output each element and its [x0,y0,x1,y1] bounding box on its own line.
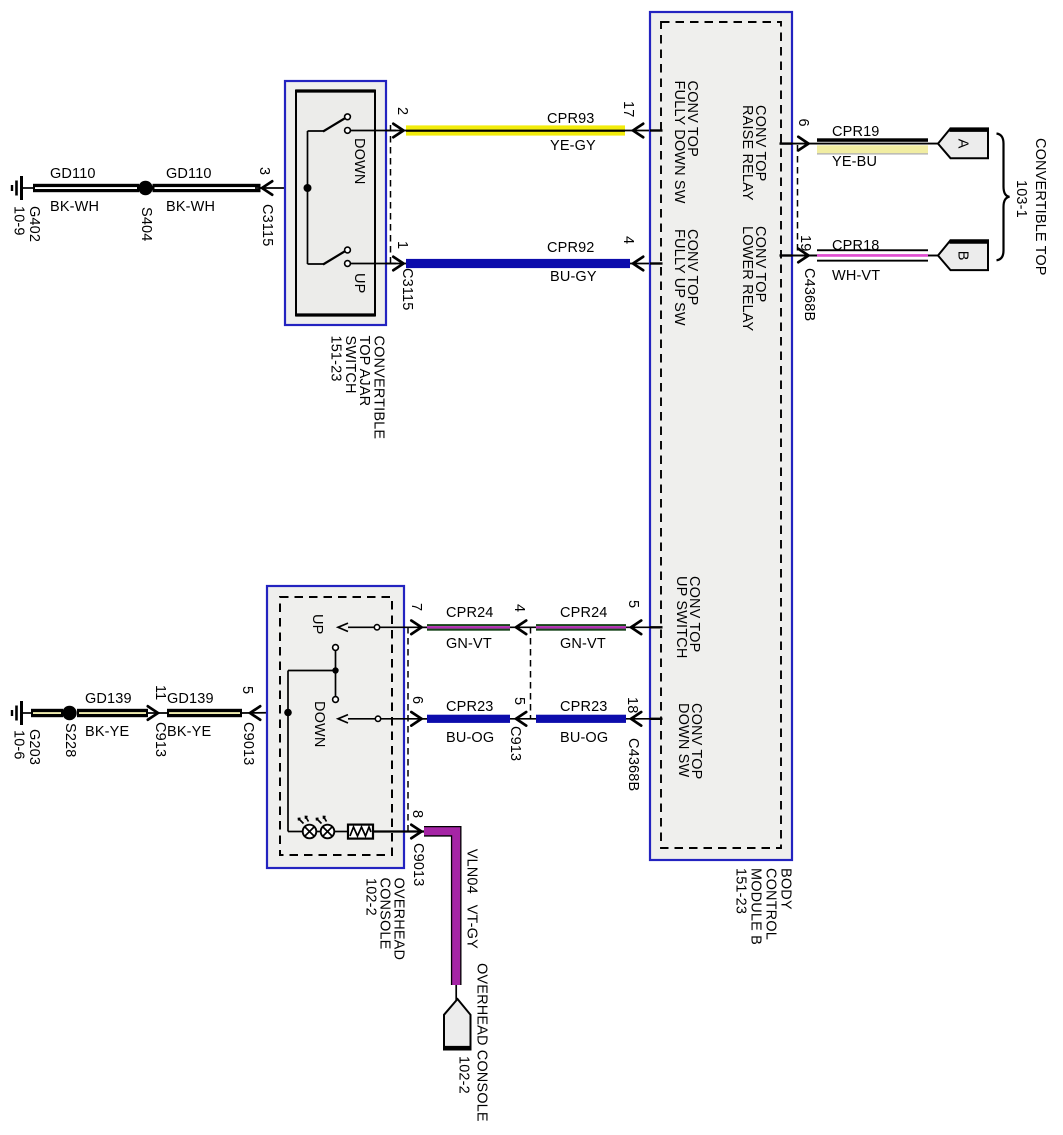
svg-text:G203: G203 [26,729,42,765]
svg-text:151-23: 151-23 [733,868,749,914]
svg-text:CPR23: CPR23 [446,699,494,715]
svg-text:OVERHEAD CONSOLE: OVERHEAD CONSOLE [474,963,490,1122]
svg-text:CPR23: CPR23 [560,699,608,715]
svg-text:CONTROL: CONTROL [763,868,779,940]
connector arrow pin 11 C913 [148,706,158,720]
wire thin at C913 [146,712,170,714]
svg-text:3: 3 [256,167,272,175]
svg-text:103-1: 103-1 [1013,180,1029,218]
pin 19 stub [780,254,793,256]
ground G203 [12,701,33,725]
switch UP contact [308,247,397,266]
svg-text:C913: C913 [507,726,523,761]
connector arrow pin 17 [633,124,643,138]
wire lamp to resistor [334,831,348,833]
svg-text:VLN04: VLN04 [464,849,480,894]
node switch common [332,667,338,673]
connector B convertible top [938,240,988,270]
connector A convertible top [938,128,988,158]
wire CPR24 GN-VT segment 2 [536,624,626,631]
UP output arrow symbol [338,623,348,631]
label conv top fully up sw [671,229,700,326]
label conv top raise relay [739,105,768,201]
node junction console [284,709,292,717]
svg-text:RAISE RELAY: RAISE RELAY [739,105,755,201]
label overhead console 102-2 (connector) [456,963,490,1122]
svg-text:FULLY UP SW: FULLY UP SW [671,229,687,326]
wire GD139 BK-YE segment 2 [167,709,242,717]
svg-text:C4368B: C4368B [625,738,641,791]
svg-text:CPR92: CPR92 [547,240,595,256]
connector arrow pin 6 [798,137,808,151]
connector arrow pin 7 C9013 [411,621,421,635]
svg-text:GN-VT: GN-VT [446,636,492,652]
wire thin to console [242,712,288,715]
svg-text:17: 17 [620,101,636,117]
label conv top down sw [675,703,704,779]
body control module box [650,12,792,860]
connector arrow pin 2 C3115 [393,124,403,138]
svg-text:5: 5 [511,697,527,705]
svg-text:UP: UP [309,614,325,634]
svg-text:2: 2 [394,107,410,115]
dashed connector line C9013 [407,627,409,832]
svg-text:151-23: 151-23 [328,336,344,382]
wire resistor to pin 8 [373,830,427,832]
splice S228 [62,706,76,720]
svg-text:DOWN SW: DOWN SW [675,703,691,778]
svg-text:BK-YE: BK-YE [85,724,129,740]
svg-text:4: 4 [620,236,636,244]
label overhead console 102-2 (box) [363,878,407,961]
svg-text:5: 5 [239,686,255,694]
svg-text:10-6: 10-6 [11,730,27,760]
svg-text:WH-VT: WH-VT [832,268,880,284]
svg-text:7: 7 [408,603,424,611]
svg-text:102-2: 102-2 [363,878,379,916]
svg-text:CPR24: CPR24 [446,605,494,621]
connector arrow pin 4 [633,257,643,271]
lamp 2 [317,817,335,839]
label conv top lower relay [739,226,768,332]
wire CPR24 GN-VT segment 1 [422,624,651,631]
wire CPR23 BU-OG segment 1 [422,715,651,723]
label convertible top ajar switch 151-23 [328,336,387,440]
svg-text:102-2: 102-2 [456,1056,472,1094]
svg-text:GD139: GD139 [85,691,132,707]
svg-text:VT-GY: VT-GY [464,905,480,949]
wire console common horizontal [288,670,336,672]
node junction in ajar switch [304,184,312,192]
svg-text:10-9: 10-9 [11,206,27,236]
svg-text:S228: S228 [62,723,78,757]
svg-text:S404: S404 [138,207,154,241]
connector arrow pin 1 C3115 [393,257,403,271]
contact circle DOWN [375,716,380,721]
connector arrow pin 8 C9013 [411,825,421,839]
connector arrow pin 18 [631,712,641,726]
connector arrow pin 19 [798,249,808,263]
wire VLN04 VT-GY [424,831,456,985]
wire console common vertical [287,671,289,832]
svg-text:BK-WH: BK-WH [50,199,99,215]
label conv top up switch [673,576,702,658]
svg-text:C913: C913 [152,722,168,757]
ground G402 [12,176,33,200]
svg-text:MODULE B: MODULE B [748,868,764,945]
svg-text:C9013: C9013 [410,843,426,886]
svg-text:BU-OG: BU-OG [446,730,494,746]
svg-text:1: 1 [394,241,410,249]
svg-text:B: B [955,251,971,261]
connector arrow pin 5 C9013 [250,706,260,720]
svg-text:CPR24: CPR24 [560,605,608,621]
wire between lamps [316,831,321,833]
svg-text:GD110: GD110 [50,166,96,182]
wire CPR19 YE-BU [792,138,938,154]
svg-text:BK-YE: BK-YE [167,724,211,740]
svg-text:C4368B: C4368B [801,268,817,321]
label G203 10-6 [11,729,43,765]
svg-text:C3115: C3115 [399,268,415,310]
connector arrow pin 4 C913 [516,621,526,635]
pin 18 stub [650,718,663,720]
svg-text:4: 4 [511,604,527,612]
svg-text:CONVERTIBLE TOP: CONVERTIBLE TOP [1032,138,1048,276]
label body control module B 151-23 [733,868,794,945]
pin 6 stub [780,142,793,144]
svg-text:LOWER RELAY: LOWER RELAY [739,226,755,332]
DOWN output arrow symbol [338,715,348,723]
svg-text:A: A [955,139,971,149]
svg-text:GD139: GD139 [167,691,214,707]
wire GD110 BK-WH segment 1 [33,184,139,192]
wire GD139 BK-YE segment 0 [31,709,63,717]
svg-text:YE-BU: YE-BU [832,154,877,170]
svg-text:GN-VT: GN-VT [560,636,606,652]
svg-text:11: 11 [152,685,168,700]
splice S404 [138,181,152,195]
svg-text:DOWN: DOWN [351,138,367,185]
convertible top ajar switch box [285,81,386,325]
dashed connector line C4368B right [797,145,799,255]
pin 4 stub [650,262,663,264]
wire to overhead console connector [455,985,457,1000]
svg-text:5: 5 [625,600,641,608]
contact circle UP [374,625,379,630]
brace convertible top [997,134,1010,261]
overhead console box [267,586,404,868]
dashed connector line C913 [530,627,532,719]
svg-text:CPR19: CPR19 [832,124,880,140]
svg-text:BODY: BODY [778,868,794,910]
wire CPR93 YE-GY [386,125,650,135]
pin 17 stub [650,129,663,131]
wire CPR92 BU-GY [386,259,650,268]
lamp 1 [299,817,317,839]
wire DOWN to pin 6 [348,718,427,720]
svg-text:C3115: C3115 [259,204,275,246]
connector overhead console [444,999,471,1050]
svg-text:DOWN: DOWN [311,701,327,748]
switch lever console [333,645,339,703]
svg-text:GD110: GD110 [166,166,212,182]
svg-text:18: 18 [624,697,640,713]
resistor [348,825,373,839]
wire GD110 BK-WH segment 2 [153,184,261,192]
connector arrow pin 6 C9013 [411,712,421,726]
wire GD139 BK-YE segment 1 [77,709,148,717]
svg-text:6: 6 [409,696,425,704]
label conv top fully down sw [671,81,700,204]
wire CPR23 BU-OG segment 2 [536,715,626,723]
pin 5 stub [650,626,663,628]
connector arrow pin 5 C913 [516,712,526,726]
wire CPR18 WH-VT [792,249,938,261]
wire switch common [307,131,309,264]
svg-text:UP SWITCH: UP SWITCH [673,576,689,658]
dashed connector line C3115 [390,125,392,268]
svg-text:19: 19 [797,235,813,251]
svg-text:6: 6 [795,119,811,127]
connector arrow pin 5 BCM [631,621,641,635]
wire to ajar switch [255,187,308,189]
connector arrow pin 3 C3115 [262,181,272,195]
svg-text:8: 8 [409,810,425,818]
wire UP to pin 7 [348,626,427,628]
svg-text:BU-GY: BU-GY [550,269,597,285]
label convertible top 103-1 [1013,138,1048,276]
svg-text:UP: UP [351,273,367,293]
svg-text:BK-WH: BK-WH [166,199,215,215]
svg-text:CPR93: CPR93 [547,111,595,127]
switch DOWN contact [308,114,397,133]
svg-text:G402: G402 [26,206,42,242]
svg-text:BU-OG: BU-OG [560,730,608,746]
svg-text:CPR18: CPR18 [832,238,880,254]
wire lamp row [288,831,303,833]
svg-text:C9013: C9013 [240,722,256,765]
svg-text:FULLY DOWN SW: FULLY DOWN SW [671,81,687,204]
label G402 10-9 [11,206,43,242]
svg-text:YE-GY: YE-GY [550,138,596,154]
